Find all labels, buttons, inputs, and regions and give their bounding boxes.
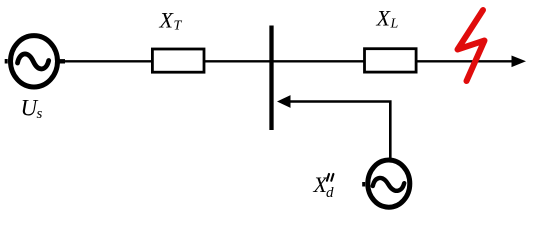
svg-text:T: T	[174, 19, 183, 34]
AC source U1 left terminal nub	[5, 59, 8, 64]
AC source U1 circle	[11, 36, 58, 87]
wire from XL to fault arrow	[416, 60, 513, 62]
generator sine wave	[373, 178, 404, 191]
generator left terminal nub	[362, 182, 365, 187]
reactance XL rectangle	[365, 49, 417, 72]
double prime marks	[327, 174, 334, 181]
wire from generator to busbar	[290, 102, 391, 159]
svg-text:X: X	[159, 7, 175, 32]
AC source U1 right terminal stub	[59, 59, 65, 63]
fault arrowhead	[512, 56, 527, 68]
svg-text:X: X	[376, 6, 392, 31]
busbar	[269, 26, 273, 131]
svg-text:d: d	[326, 185, 334, 201]
generator feed arrowhead at busbar	[277, 95, 291, 108]
fault lightning bolt	[458, 10, 485, 81]
svg-text:s: s	[37, 106, 43, 122]
wire from busbar to XL	[274, 60, 366, 62]
generator circle	[368, 160, 410, 207]
AC source U1 sine wave	[18, 54, 49, 69]
wire from XT to busbar	[204, 60, 270, 62]
reactance XT rectangle	[152, 49, 204, 72]
wire from source to XT	[64, 60, 154, 62]
svg-text:L: L	[390, 17, 399, 32]
